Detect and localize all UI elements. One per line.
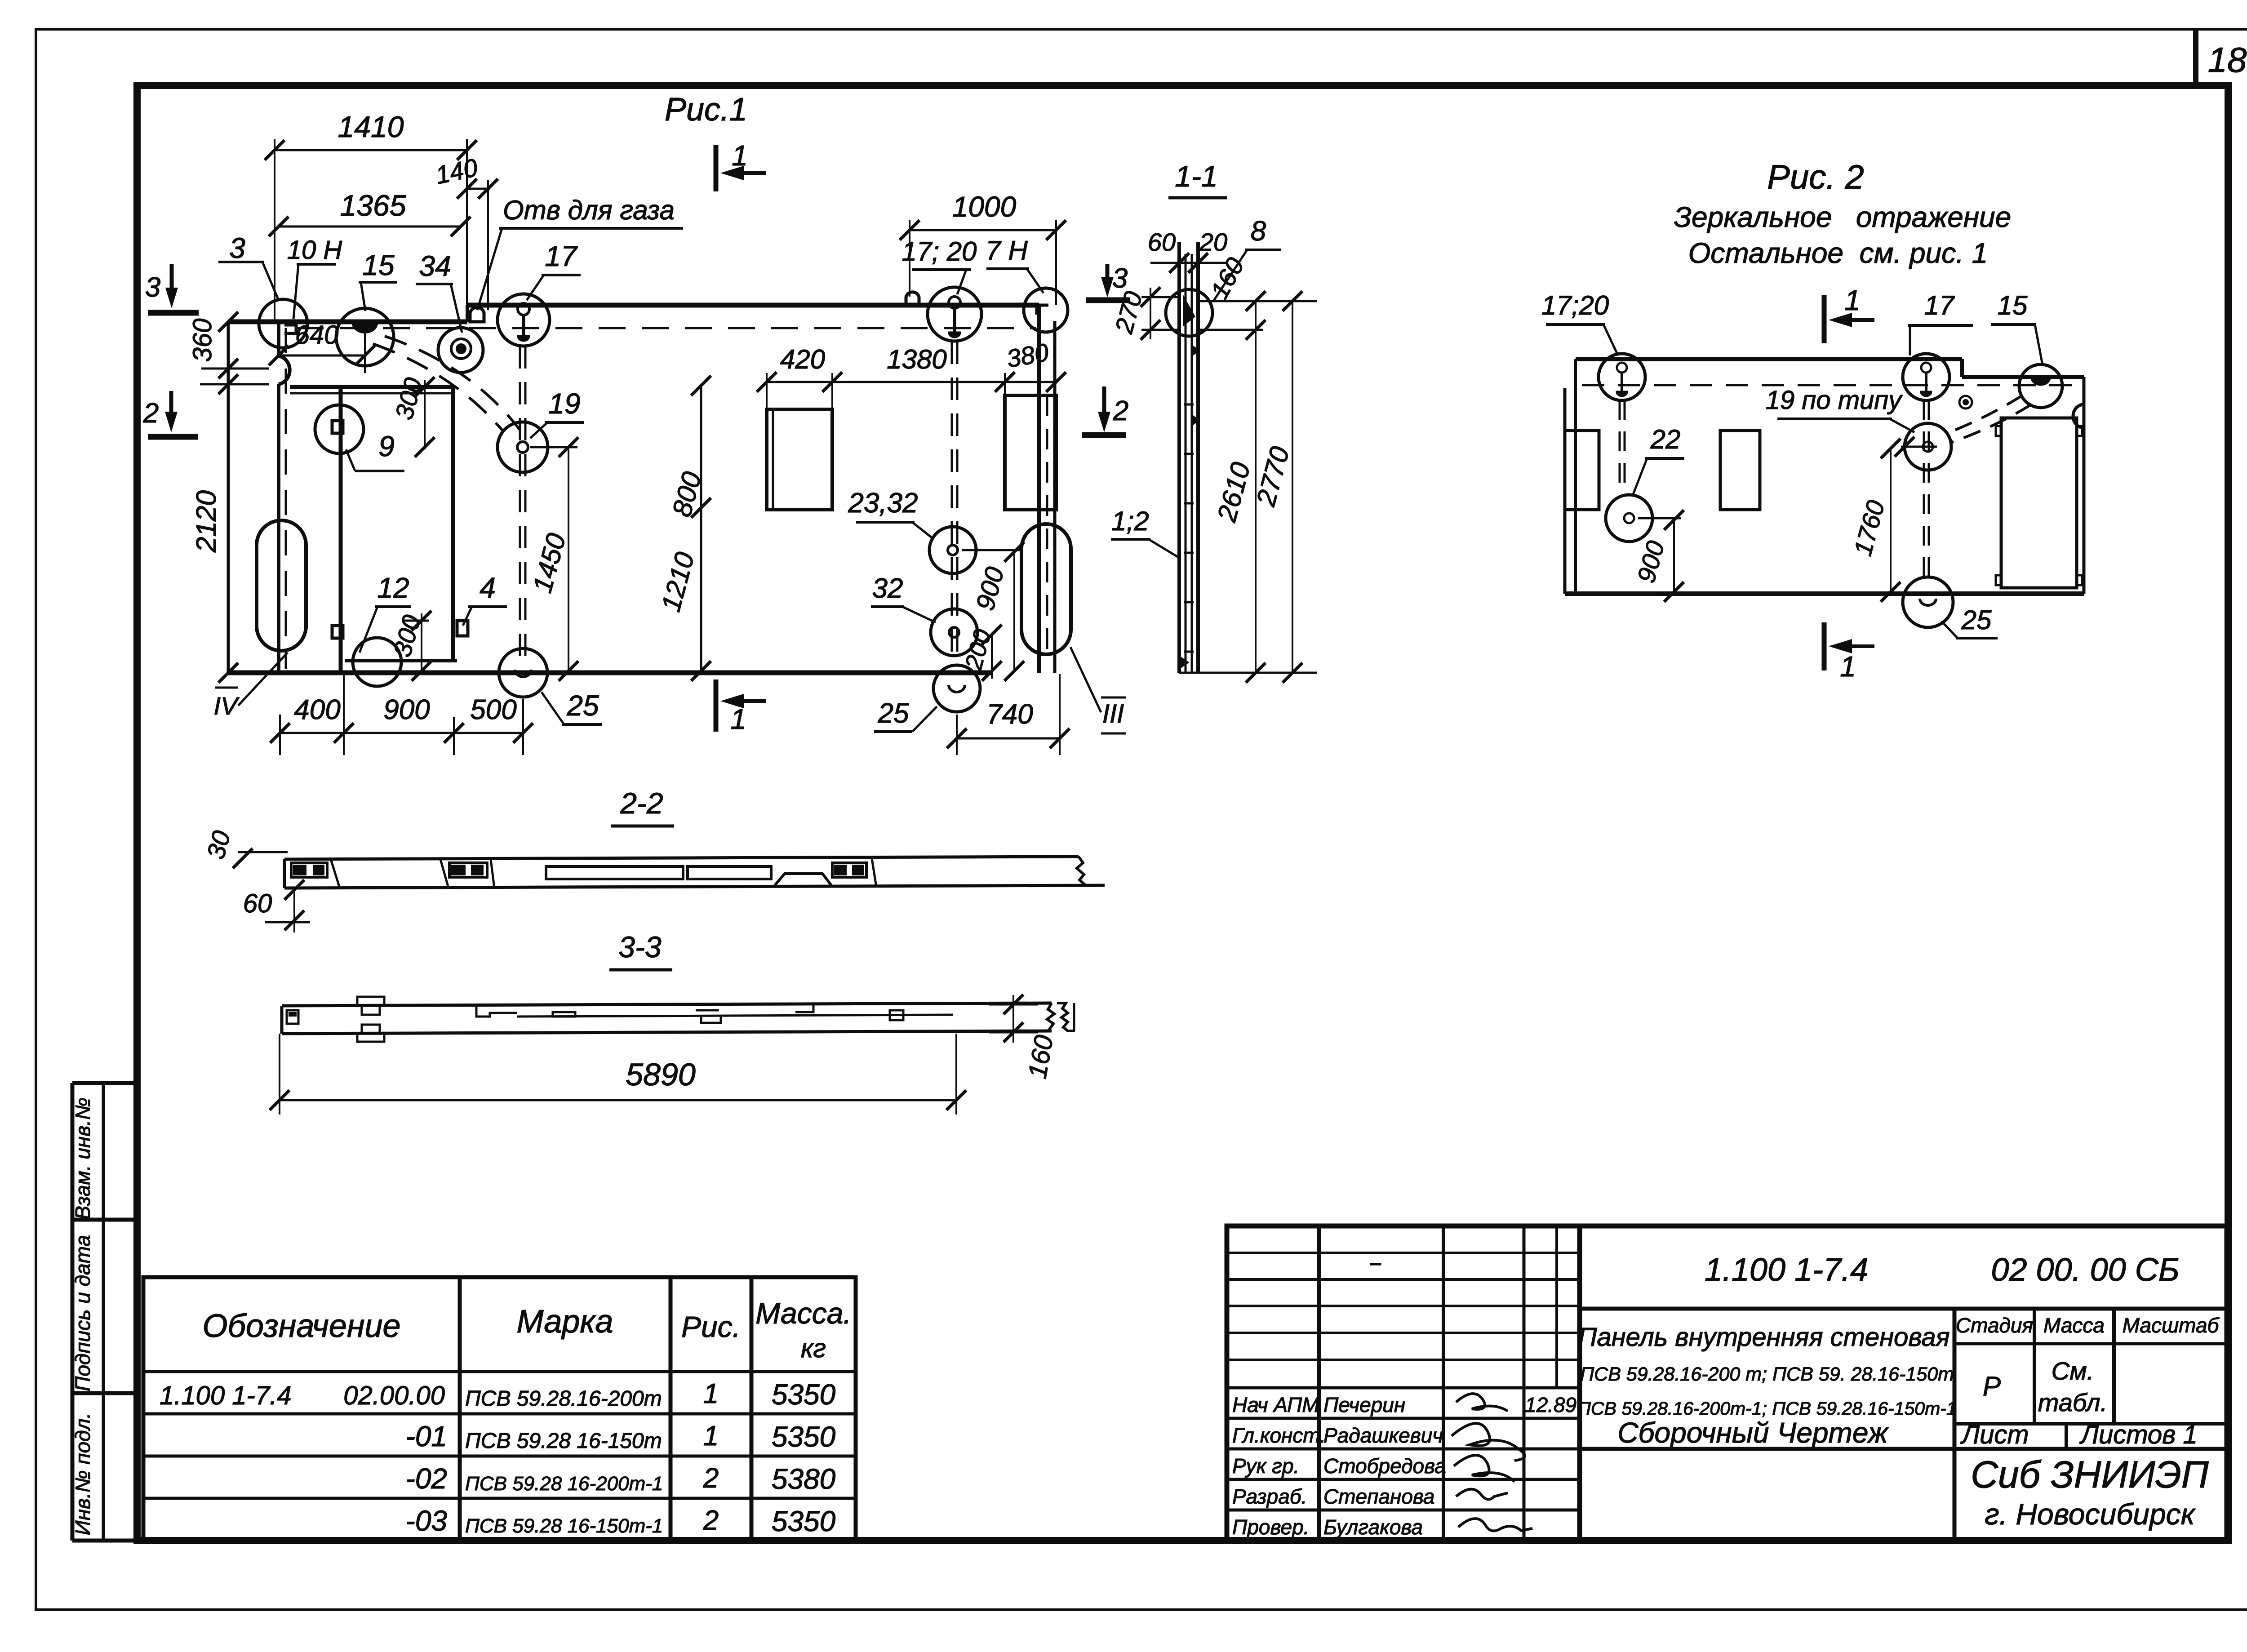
svg-text:Рис. 2: Рис. 2 bbox=[1767, 158, 1864, 196]
fig2 dashed vertical left bbox=[1619, 400, 1621, 494]
svg-text:1: 1 bbox=[703, 1421, 719, 1452]
svg-text:См.: См. bbox=[2052, 1357, 2094, 1385]
svg-text:2: 2 bbox=[143, 398, 159, 429]
svg-text:1: 1 bbox=[1840, 650, 1856, 683]
svg-text:17; 20: 17; 20 bbox=[902, 236, 977, 266]
svg-text:2: 2 bbox=[703, 1463, 719, 1494]
svg-text:32: 32 bbox=[872, 573, 903, 604]
svg-text:III: III bbox=[1102, 699, 1124, 728]
svg-text:Обозначение: Обозначение bbox=[202, 1308, 400, 1344]
svg-text:Провер.: Провер. bbox=[1232, 1515, 1309, 1539]
svg-text:02 00. 00 СБ: 02 00. 00 СБ bbox=[1991, 1252, 2179, 1288]
svg-text:Рис.: Рис. bbox=[681, 1310, 741, 1343]
svg-text:3: 3 bbox=[145, 272, 160, 303]
balloon 23,32 bbox=[929, 527, 976, 573]
panel left edge bbox=[227, 322, 230, 673]
svg-text:1.100 1-7.4: 1.100 1-7.4 bbox=[160, 1381, 291, 1410]
page number box 18 bbox=[2193, 29, 2198, 85]
balloon 19 bbox=[497, 422, 548, 472]
svg-text:22: 22 bbox=[1650, 424, 1681, 454]
door opening top line bbox=[290, 385, 453, 389]
svg-text:ПСВ 59.28.16-200т-1; ПСВ 59.2: ПСВ 59.28.16-200т-1; ПСВ 59.28.16-150т-1 bbox=[1577, 1398, 1956, 1419]
svg-text:400: 400 bbox=[294, 694, 340, 725]
bottom extension of 1-1 bbox=[1179, 672, 1317, 674]
svg-text:1;2: 1;2 bbox=[1111, 506, 1149, 536]
svg-text:Р: Р bbox=[1983, 1371, 2001, 1401]
svg-text:Булгакова: Булгакова bbox=[1323, 1515, 1423, 1539]
svg-text:1: 1 bbox=[1844, 284, 1861, 316]
svg-text:Нач АПМ: Нач АПМ bbox=[1232, 1393, 1319, 1417]
svg-text:Масса.: Масса. bbox=[755, 1297, 851, 1330]
svg-text:60: 60 bbox=[243, 889, 272, 918]
3-3 right end break and key bbox=[1047, 1003, 1054, 1031]
svg-text:1365: 1365 bbox=[340, 189, 406, 222]
svg-text:02.00.00: 02.00.00 bbox=[343, 1381, 445, 1410]
bottom dims 400 900 500 bbox=[280, 732, 523, 734]
2-2 trapezoid notch bbox=[775, 874, 831, 885]
fig2 arc 15 to 19 bbox=[1946, 395, 2022, 434]
2-2 right end break bbox=[1077, 857, 1086, 885]
2-2 left end detail bbox=[291, 863, 327, 877]
svg-text:Масса: Масса bbox=[2043, 1314, 2105, 1337]
3-3 right small details bbox=[795, 1005, 813, 1012]
svg-text:23,32: 23,32 bbox=[848, 488, 918, 519]
fig2 panel outline bbox=[1576, 357, 1962, 361]
svg-text:1: 1 bbox=[730, 703, 746, 735]
balloon 17,20 bbox=[928, 287, 981, 341]
door opening right vertical bbox=[451, 387, 455, 661]
dashed vertical pair 17-19-25 bbox=[519, 346, 521, 663]
dim 5890 bbox=[280, 1099, 956, 1101]
section 1-1 weld blobs bbox=[1192, 346, 1198, 355]
svg-text:19: 19 bbox=[548, 387, 580, 420]
svg-text:5890: 5890 bbox=[626, 1057, 696, 1092]
dim 1000 bbox=[910, 229, 1056, 231]
section 1-1 ladder rungs bbox=[1184, 404, 1194, 406]
left stadium lifting slot bbox=[257, 520, 306, 651]
balloon 15 bbox=[336, 308, 394, 366]
svg-text:5350: 5350 bbox=[772, 1505, 836, 1537]
svg-text:−: − bbox=[1368, 1252, 1381, 1277]
svg-text:ПСВ 59.28 16-200т-1: ПСВ 59.28 16-200т-1 bbox=[465, 1473, 663, 1495]
left window opening bbox=[767, 409, 832, 510]
3-3 table symbol 1 bbox=[357, 997, 384, 1015]
svg-text:740: 740 bbox=[986, 699, 1033, 730]
dim line 2610 bbox=[1255, 301, 1257, 673]
section 2-2 strip body bbox=[284, 857, 1079, 859]
3-3 inner line bbox=[517, 1015, 953, 1017]
svg-text:кг: кг bbox=[801, 1334, 826, 1363]
stage mass scale header bbox=[1953, 1309, 1957, 1541]
parts table grid bbox=[143, 1277, 856, 1541]
svg-text:Подпись и дата: Подпись и дата bbox=[71, 1235, 94, 1391]
balloon 9 bbox=[315, 405, 364, 453]
svg-text:Масштаб: Масштаб bbox=[2123, 1314, 2220, 1337]
svg-text:420: 420 bbox=[780, 344, 825, 374]
svg-text:12.89: 12.89 bbox=[1525, 1393, 1576, 1417]
section mark 3 left bbox=[170, 264, 174, 289]
svg-text:17: 17 bbox=[545, 240, 578, 272]
svg-text:Марка: Марка bbox=[517, 1304, 613, 1340]
right window opening bbox=[1005, 395, 1056, 510]
svg-text:2-2: 2-2 bbox=[620, 786, 663, 820]
panel plan top edge right bbox=[467, 303, 1039, 308]
svg-text:10 Н: 10 Н bbox=[287, 235, 342, 265]
svg-text:4: 4 bbox=[480, 572, 496, 604]
svg-text:Зеркальное отражение: Зеркальное отражение bbox=[1674, 201, 2011, 233]
svg-text:Взам. инв.№: Взам. инв.№ bbox=[71, 1097, 94, 1220]
gas hole dome 2 bbox=[906, 292, 919, 305]
signature rows bbox=[1227, 1386, 1580, 1390]
fig2 balloon 17,20 bbox=[1599, 354, 1645, 400]
fig2 right big rect bbox=[2001, 418, 2077, 588]
door opening bottom line bbox=[345, 659, 457, 662]
svg-text:1: 1 bbox=[732, 139, 748, 172]
fig2 dashed vertical right bbox=[1923, 400, 1925, 580]
panel right end verticals bbox=[1037, 305, 1041, 673]
svg-text:Радашкевич: Радашкевич bbox=[1323, 1424, 1443, 1447]
svg-text:Панель внутренняя стеновая: Панель внутренняя стеновая bbox=[1578, 1323, 1949, 1352]
fig2 section mark 1 top bbox=[1822, 295, 1827, 343]
section mark 2 right bbox=[1102, 386, 1106, 413]
svg-text:ПСВ 59.28 16-150т-1: ПСВ 59.28 16-150т-1 bbox=[465, 1515, 663, 1537]
section mark 2 left bbox=[169, 391, 173, 413]
extension lines right of 1-1 bbox=[1198, 300, 1317, 302]
anchor square 4 bbox=[457, 621, 468, 636]
svg-text:Гл.конст.: Гл.конст. bbox=[1232, 1424, 1326, 1447]
section 1-1 strip verticals bbox=[1177, 242, 1181, 673]
3-3 left end detail bbox=[287, 1010, 298, 1024]
balloon 7N bbox=[1024, 288, 1068, 332]
svg-text:1.100 1-7.4: 1.100 1-7.4 bbox=[1705, 1252, 1868, 1288]
fig2 balloon 25 bbox=[1903, 577, 1953, 627]
svg-text:табл.: табл. bbox=[2038, 1388, 2108, 1417]
dim 640 bbox=[279, 355, 365, 357]
fig2 dim 900 bbox=[1673, 518, 1675, 594]
door opening left vertical bbox=[339, 387, 343, 671]
svg-text:1000: 1000 bbox=[952, 191, 1017, 223]
svg-text:Печерин: Печерин bbox=[1323, 1393, 1405, 1417]
fig2 left window rect bbox=[1565, 431, 1599, 510]
panel top step and gas hole dome bbox=[466, 305, 469, 322]
svg-text:3-3: 3-3 bbox=[618, 930, 662, 964]
2-2 mid detail 1 bbox=[440, 859, 449, 888]
svg-text:25: 25 bbox=[878, 698, 909, 729]
dims 420 1380 380 bbox=[767, 381, 1056, 383]
dim 740 bbox=[957, 737, 1060, 740]
fig2 middle rect opening bbox=[1720, 431, 1760, 510]
fig2 bullseye bbox=[1959, 396, 1972, 409]
2-2 right detail bbox=[832, 863, 866, 877]
2-2 long rect 2 bbox=[688, 866, 771, 879]
anchor square 9 bbox=[332, 421, 343, 433]
svg-text:60: 60 bbox=[1148, 228, 1176, 256]
svg-text:20: 20 bbox=[1199, 228, 1227, 256]
dim 1365 bbox=[279, 226, 461, 228]
svg-text:1380: 1380 bbox=[887, 344, 946, 374]
panel inner rib line with notch bbox=[277, 323, 280, 356]
svg-text:Степанова: Степанова bbox=[1323, 1485, 1435, 1508]
svg-text:ПСВ 59.28 16-150т: ПСВ 59.28 16-150т bbox=[465, 1429, 662, 1453]
svg-text:2120: 2120 bbox=[191, 490, 222, 553]
anchor square left 12 bbox=[332, 626, 343, 638]
balloon 25 left bbox=[499, 648, 547, 697]
title block outline bbox=[1227, 1226, 2227, 1541]
balloon 3 bbox=[259, 299, 307, 348]
fig2 balloon 19 bbox=[1905, 423, 1951, 470]
left margin column cells bbox=[72, 1081, 137, 1085]
right stadium lifting slot bbox=[1021, 524, 1071, 654]
dim line 2770 bbox=[1292, 301, 1293, 673]
list / listov row bbox=[1954, 1422, 2227, 1426]
svg-text:Рук гр.: Рук гр. bbox=[1232, 1454, 1299, 1478]
section mark 3 right bbox=[1106, 264, 1110, 279]
svg-text:Стадия: Стадия bbox=[1956, 1314, 2033, 1337]
dim 1410 bbox=[275, 149, 467, 151]
svg-text:Сборочный Чертеж: Сборочный Чертеж bbox=[1617, 1417, 1889, 1449]
svg-text:Стобредова: Стобредова bbox=[1323, 1454, 1446, 1478]
balloon 17 fig1 bbox=[497, 294, 550, 346]
long hidden dash line under top edge bbox=[297, 327, 1036, 329]
svg-text:5380: 5380 bbox=[772, 1463, 836, 1495]
svg-text:2: 2 bbox=[1113, 395, 1128, 426]
svg-text:15: 15 bbox=[362, 249, 395, 281]
svg-text:1: 1 bbox=[703, 1378, 719, 1409]
revision table rows bbox=[1227, 1252, 1580, 1254]
panel plan top edge left bbox=[228, 320, 467, 324]
fig2 balloon 22 bbox=[1606, 495, 1652, 542]
svg-text:360: 360 bbox=[188, 319, 217, 362]
svg-text:-01: -01 bbox=[406, 1420, 448, 1452]
svg-text:900: 900 bbox=[383, 694, 430, 725]
svg-text:1410: 1410 bbox=[338, 110, 404, 143]
balloon 25 mid bbox=[933, 665, 980, 712]
svg-text:Рис.1: Рис.1 bbox=[665, 92, 747, 128]
svg-text:-03: -03 bbox=[406, 1505, 448, 1537]
svg-text:17;20: 17;20 bbox=[1541, 290, 1609, 320]
panel hidden dashed line x636 bbox=[285, 328, 287, 669]
svg-text:18: 18 bbox=[2208, 40, 2247, 80]
balloon 32 bbox=[931, 609, 977, 656]
svg-text:2: 2 bbox=[703, 1505, 719, 1536]
svg-text:5350: 5350 bbox=[772, 1421, 836, 1453]
svg-text:IV: IV bbox=[214, 692, 240, 720]
svg-text:12: 12 bbox=[377, 572, 409, 604]
svg-text:Инв.№ подл.: Инв.№ подл. bbox=[71, 1413, 94, 1536]
3-3 step notch bbox=[476, 1005, 517, 1017]
title block left verticals bbox=[1317, 1226, 1321, 1541]
svg-text:3: 3 bbox=[229, 232, 245, 264]
svg-text:17: 17 bbox=[1924, 290, 1955, 320]
svg-text:Листов 1: Листов 1 bbox=[2079, 1420, 2198, 1449]
svg-text:8: 8 bbox=[1251, 216, 1266, 247]
svg-text:1-1: 1-1 bbox=[1175, 160, 1217, 193]
svg-text:640: 640 bbox=[295, 320, 339, 350]
signatures scribbles bbox=[1456, 1394, 1508, 1411]
balloon 34 bbox=[438, 328, 483, 373]
fig2 balloon 17 bbox=[1903, 354, 1949, 400]
svg-text:Разраб.: Разраб. bbox=[1232, 1485, 1307, 1508]
fig1 section mark 1 bottom bbox=[714, 679, 719, 732]
3-3 mid dash bbox=[696, 1009, 719, 1012]
svg-text:ПСВ 59.28.16-200 т; ПСВ 59. 2: ПСВ 59.28.16-200 т; ПСВ 59. 28.16-150т bbox=[1580, 1363, 1954, 1385]
svg-text:-02: -02 bbox=[406, 1462, 448, 1495]
svg-text:15: 15 bbox=[1998, 290, 2028, 320]
svg-text:34: 34 bbox=[419, 250, 451, 282]
svg-text:7 Н: 7 Н bbox=[986, 235, 1028, 266]
dashed vertical pair 1720-2332-32-25 bbox=[951, 342, 953, 665]
2-2 long rect 1 bbox=[546, 866, 683, 879]
svg-text:Сиб ЗНИИЭП: Сиб ЗНИИЭП bbox=[1971, 1453, 2209, 1496]
fig2 section mark 1 bottom bbox=[1822, 622, 1827, 671]
panel bottom edge bbox=[228, 671, 992, 675]
fig1 section mark 1 top bbox=[714, 145, 719, 191]
fig2 dim 1760 bbox=[1890, 447, 1892, 594]
svg-text:25: 25 bbox=[566, 689, 599, 722]
svg-text:9: 9 bbox=[378, 430, 395, 462]
svg-text:500: 500 bbox=[470, 694, 516, 725]
section 3-3 strip body bbox=[282, 1003, 1052, 1006]
svg-text:Лист: Лист bbox=[1960, 1420, 2029, 1449]
balloon 8 on 1-1 bbox=[1166, 289, 1212, 336]
svg-text:19 по типу: 19 по типу bbox=[1766, 386, 1903, 415]
fig2 balloon 15 bbox=[2019, 364, 2062, 408]
svg-text:Остальное см. рис. 1: Остальное см. рис. 1 bbox=[1688, 237, 1988, 269]
svg-text:ПСВ 59.28.16-200т: ПСВ 59.28.16-200т bbox=[465, 1387, 662, 1411]
fig2 dashed horizontal bbox=[1582, 384, 2076, 386]
svg-text:г. Новосибирск: г. Новосибирск bbox=[1985, 1497, 2196, 1531]
svg-text:25: 25 bbox=[1961, 605, 1992, 635]
svg-text:Отв для газа: Отв для газа bbox=[503, 195, 675, 225]
double dash arc from 15 to 19 bbox=[373, 344, 503, 431]
svg-text:5350: 5350 bbox=[772, 1378, 836, 1411]
